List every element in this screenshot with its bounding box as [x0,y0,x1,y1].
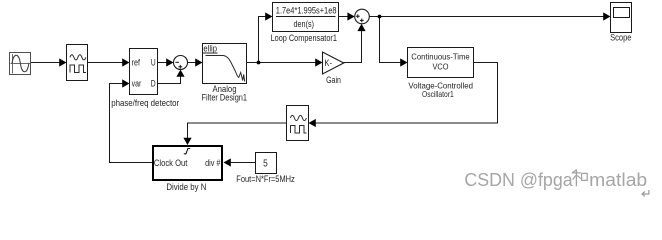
svg-text:ref: ref [132,57,141,67]
svg-text:Filter Design1: Filter Design1 [202,92,248,102]
svg-text:ellip: ellip [203,44,217,54]
svg-text:Scope: Scope [610,32,631,43]
svg-text:matlab: matlab [589,169,647,190]
svg-text:CSDN @fpga: CSDN @fpga [464,169,573,190]
svg-text:5: 5 [263,157,268,169]
svg-text:Gain: Gain [326,75,341,85]
svg-text:1.7e4*1.995s+1e8: 1.7e4*1.995s+1e8 [276,5,337,15]
svg-text:Divide by N: Divide by N [166,182,206,192]
svg-text:Oscillator1: Oscillator1 [422,89,454,99]
svg-text:Loop Compensator1: Loop Compensator1 [271,33,337,43]
svg-text:den(s): den(s) [294,19,315,29]
svg-text:Continuous-Time: Continuous-Time [411,53,470,62]
svg-text:VCO: VCO [433,63,449,72]
svg-text:Clock Out: Clock Out [154,158,188,168]
svg-text:D: D [151,78,156,88]
svg-text:Fout=N*Fr=5MHz: Fout=N*Fr=5MHz [236,174,295,184]
svg-text:div #: div # [205,158,220,168]
svg-text:var: var [132,78,142,88]
svg-text:K-: K- [324,58,332,68]
svg-text:U: U [151,57,156,67]
svg-text:phase/freq detector: phase/freq detector [111,98,179,108]
